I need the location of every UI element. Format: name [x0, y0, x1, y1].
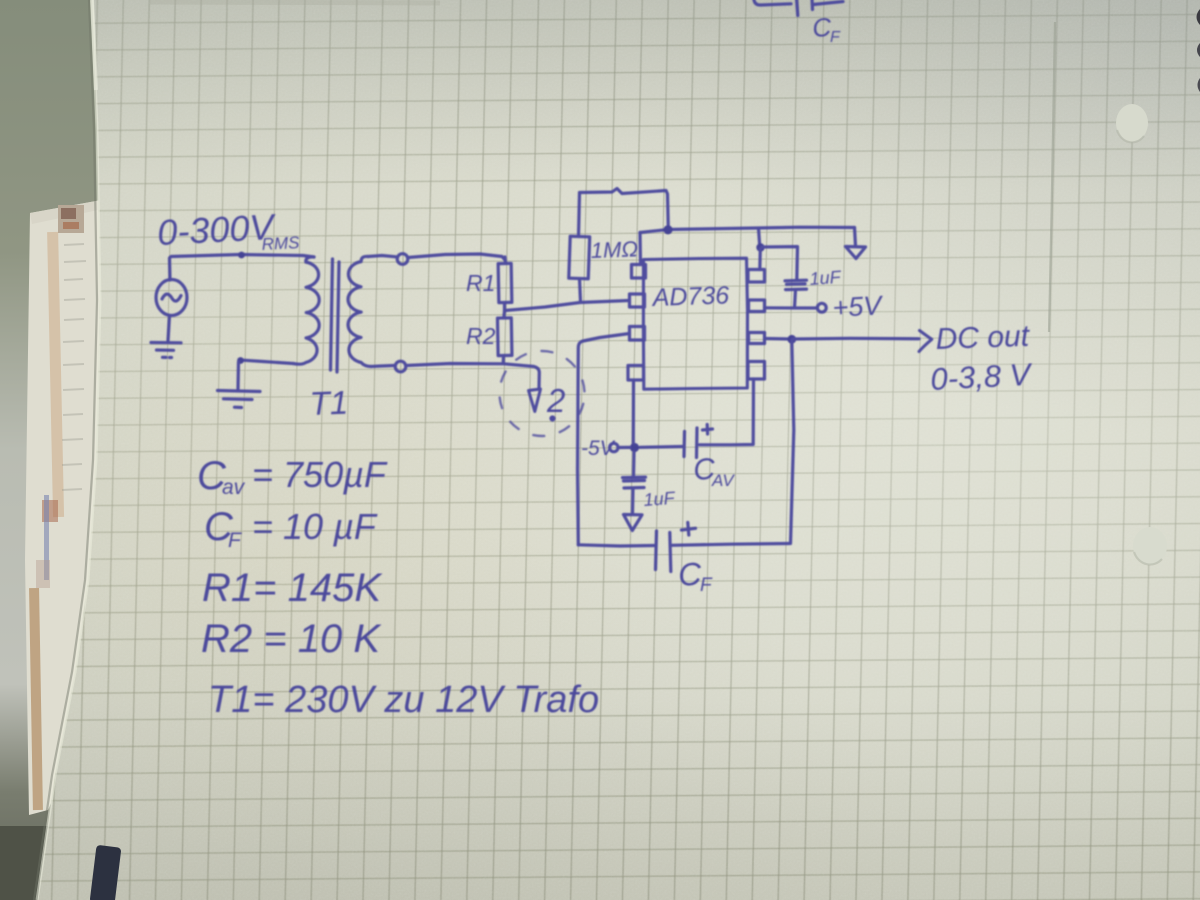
svg-text:2: 2	[546, 382, 565, 419]
arrow-down ground marker	[624, 515, 643, 531]
resistor R1	[498, 257, 512, 311]
transformer secondary bottom terminal	[371, 366, 394, 367]
wire pin3 loop left and down	[578, 334, 630, 545]
transformer T1 core	[331, 259, 333, 370]
wire R1 bottom to pin2 (input)	[505, 301, 629, 311]
wire output node down to CF loop	[791, 340, 794, 544]
paper crease line	[1049, 22, 1055, 332]
svg-text:= 750µF: = 750µF	[252, 454, 388, 495]
svg-text:F: F	[830, 29, 841, 46]
node B junction dot	[237, 357, 244, 364]
+5V terminal circle	[817, 303, 826, 312]
wire source top to transformer primary	[170, 255, 315, 281]
node D junction dot	[756, 243, 764, 251]
capacitor CF	[656, 523, 696, 572]
pin 5	[748, 362, 765, 380]
svg-text:av: av	[222, 476, 246, 499]
wire 1M top loop to pin1 rail	[580, 189, 669, 229]
formula Cav = 750uF	[197, 454, 388, 499]
wire node D right then down to bypass cap	[762, 247, 798, 280]
capacitor 1uF (-5V bypass)	[623, 477, 646, 513]
desk background	[0, 0, 220, 900]
transformer T1 primary winding	[293, 257, 319, 364]
svg-text:0-3,8 V: 0-3,8 V	[930, 357, 1035, 397]
wire rail end down to arrow	[855, 228, 856, 247]
wire secondary top to R1	[408, 254, 505, 260]
punch hole top right	[1116, 104, 1148, 142]
svg-text:AV: AV	[711, 471, 735, 490]
resistor R2	[497, 311, 511, 364]
svg-text:F: F	[700, 575, 713, 596]
wire node D down to pin 8	[758, 249, 762, 270]
wire pin7 to +5V terminal	[765, 306, 817, 309]
svg-text:-5V: -5V	[581, 437, 616, 460]
wire CF bottom rail left part	[578, 545, 654, 546]
label CF	[677, 555, 713, 596]
transformer T1 secondary winding	[348, 256, 371, 366]
svg-text:1uF: 1uF	[643, 488, 676, 510]
svg-text:T1: T1	[309, 384, 349, 422]
pin 6	[749, 333, 765, 344]
label CAV	[692, 453, 735, 490]
DC out arrowhead	[919, 331, 932, 352]
capacitor CAV	[684, 425, 713, 458]
ground G1	[151, 343, 181, 358]
pin 3	[630, 327, 645, 341]
label 0-300Vrms	[156, 206, 300, 254]
svg-text:1uF: 1uF	[809, 267, 842, 289]
capacitor CF (top, clipped by photo edge)	[754, 0, 843, 16]
pin 4	[628, 366, 644, 381]
node C junction dot (1M loop joins rail)	[663, 225, 672, 234]
svg-text:AD736: AD736	[650, 281, 729, 312]
svg-text:T1= 230V zu 12V Trafo: T1= 230V zu 12V Trafo	[208, 679, 599, 721]
svg-text:RMS: RMS	[261, 233, 300, 254]
IC U1 AD736 body	[643, 258, 747, 389]
pin 8	[748, 270, 765, 283]
wire pin4 down to node F	[632, 381, 635, 444]
wire node F down to bypass cap	[632, 452, 636, 477]
node A junction dot	[238, 252, 245, 259]
svg-text:DC out: DC out	[935, 320, 1031, 356]
wire pin6 to output node	[765, 337, 790, 341]
svg-text:F: F	[228, 529, 242, 552]
wire pin1 up to top rail	[638, 233, 642, 265]
paper edge highlight & shadow	[37, 0, 100, 900]
label CF (top)	[811, 12, 841, 46]
white sheet under paper	[25, 197, 118, 815]
wire CAV left plate to -5V node	[640, 445, 683, 449]
ac source V1	[156, 280, 187, 316]
resistor 1M	[569, 193, 590, 302]
dark object bottom left on paper	[90, 845, 122, 900]
wire CF to right riser	[671, 544, 790, 546]
capacitor 1uF (+5V bypass)	[785, 280, 807, 307]
wire pin8 stub up to rail	[759, 229, 760, 248]
formula CF = 10 uF	[204, 505, 378, 552]
-5V terminal circle	[610, 443, 618, 451]
svg-text:R1= 145K: R1= 145K	[202, 566, 383, 610]
node E output junction dot	[787, 335, 796, 344]
ground G2	[218, 391, 261, 408]
pin 1	[632, 265, 646, 279]
voltmeter probe V2 dashed circle	[490, 342, 593, 445]
wire primary bottom to ground node	[243, 360, 293, 363]
wire -5V terminal to node F	[618, 446, 630, 449]
wire pin5 down to CAV	[700, 379, 754, 445]
wire top rail pin1 to arrow stub	[640, 227, 855, 232]
transformer secondary top terminal	[368, 256, 396, 257]
arrow-down connector (to CF top)	[846, 247, 866, 259]
svg-text:+5V: +5V	[832, 290, 885, 323]
pin 2	[630, 294, 645, 307]
wire secondary bottom to R2 bottom	[406, 364, 539, 389]
voltmeter V2 symbol	[529, 382, 566, 422]
node F -5V junction dot	[630, 443, 639, 452]
punch hole right middle	[1133, 527, 1167, 565]
svg-text:1MΩ: 1MΩ	[590, 236, 638, 263]
wire node B down	[236, 362, 240, 389]
svg-text:= 10 µF: = 10 µF	[252, 506, 378, 547]
svg-text:R2: R2	[466, 323, 496, 349]
svg-text:R1: R1	[466, 270, 495, 296]
binder rings right edge	[1197, 9, 1200, 25]
pin 7	[749, 300, 765, 312]
svg-text:R2 = 10 K: R2 = 10 K	[201, 617, 382, 661]
svg-text:0-300V: 0-300V	[156, 206, 277, 253]
wire source bottom lead	[168, 316, 170, 342]
wire output node to arrow	[793, 337, 919, 341]
